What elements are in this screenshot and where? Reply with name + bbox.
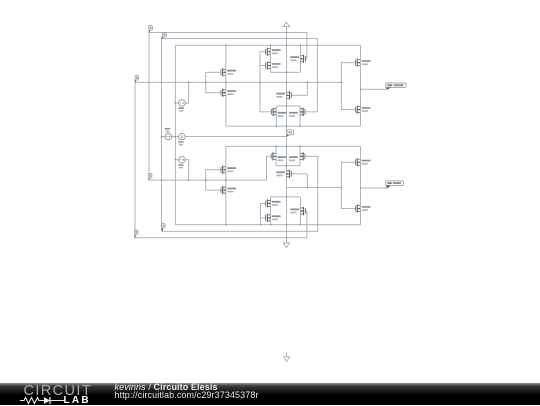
wire rail bottom2 xyxy=(162,156,318,231)
junction xyxy=(300,224,301,225)
voltage source V3 xyxy=(179,157,186,164)
label transistor M15 value xyxy=(227,188,236,193)
label current source I1 value xyxy=(178,141,184,145)
junction xyxy=(286,72,287,73)
node flag input bottom xyxy=(148,174,152,181)
label voltage source V2 value xyxy=(165,128,171,132)
wire side pair DS left top xyxy=(275,106,277,126)
junction xyxy=(360,187,361,188)
transistor M20 xyxy=(356,205,361,213)
junction xyxy=(205,82,206,83)
wire gate bus bottom pair xyxy=(206,170,221,190)
junction xyxy=(286,45,287,46)
transistor M7 xyxy=(271,108,276,116)
junction xyxy=(286,105,287,106)
wire net VDD top xyxy=(149,33,307,59)
label transistor M11 value xyxy=(277,156,286,161)
output flag top xyxy=(386,83,407,90)
ground symbol GND1 xyxy=(283,238,289,248)
node tag mid xyxy=(287,130,294,137)
wire M13 gate xyxy=(291,174,307,188)
wire box left edge xyxy=(174,45,176,225)
wire rail VDD box top xyxy=(175,44,360,46)
junction xyxy=(286,196,287,197)
transistor M15 xyxy=(221,186,226,194)
wire out net bottom xyxy=(360,187,387,189)
label transistor M7 value xyxy=(278,112,287,117)
junction xyxy=(188,82,189,83)
transistor M18 xyxy=(300,207,305,215)
wire out gate bus top xyxy=(341,63,355,110)
label transistor M6 value xyxy=(276,93,285,98)
junction xyxy=(286,165,287,166)
transistor M2 xyxy=(266,62,271,70)
power VDD arrow xyxy=(283,22,290,32)
wire gate bus top pair xyxy=(206,72,221,92)
voltage source V2 xyxy=(165,133,172,140)
wire VSS rail top block xyxy=(226,125,361,127)
transistor M13 xyxy=(286,170,291,178)
wire I1 to node xyxy=(185,136,286,138)
junction xyxy=(341,187,342,188)
junction xyxy=(286,125,287,126)
junction xyxy=(307,82,308,83)
current source I1 xyxy=(179,133,186,140)
label transistor M12 value xyxy=(289,156,298,161)
wire bias stub M2 xyxy=(260,65,266,67)
junction xyxy=(307,187,308,188)
wire mirror box bottom xyxy=(276,165,300,167)
wire out gate bus bottom xyxy=(341,162,355,208)
CircuitLab logo xyxy=(24,383,93,399)
voltage source V1 xyxy=(179,100,186,107)
wire input chain bottom xyxy=(225,146,227,225)
node flag bias2 xyxy=(162,33,167,39)
wire net bias2 top xyxy=(162,39,318,112)
label transistor M14 value xyxy=(227,167,236,172)
junction xyxy=(286,237,287,238)
junction xyxy=(175,136,176,137)
wire side pair DS left bottom xyxy=(275,146,277,166)
junction xyxy=(260,224,261,225)
junction xyxy=(205,179,206,180)
wire input chain top xyxy=(225,45,227,126)
wire VDD rail bottom block xyxy=(226,145,361,147)
junction xyxy=(360,89,361,90)
wire mid rail bottom xyxy=(286,187,341,189)
junction xyxy=(225,45,226,46)
label transistor M18 value xyxy=(290,209,299,214)
wire out net top xyxy=(360,88,387,90)
junction xyxy=(188,179,189,180)
junction xyxy=(300,45,301,46)
transistor M19 xyxy=(356,158,361,166)
label transistor M10 value xyxy=(362,107,371,112)
transistor M5 xyxy=(221,89,226,97)
label transistor M20 value xyxy=(362,206,371,211)
transistor M6 xyxy=(286,91,291,99)
wire V1 to input xyxy=(185,82,188,103)
wire side pair DS right bottom xyxy=(299,146,301,166)
wire left vertical A xyxy=(134,82,136,238)
output flag bottom xyxy=(386,181,404,189)
node flag GND xyxy=(134,230,138,238)
junction xyxy=(286,32,287,33)
label transistor M4 value xyxy=(227,70,236,75)
node flag VDD xyxy=(149,26,153,33)
transistor M12 xyxy=(300,152,305,160)
wire side pair DS right top xyxy=(299,106,301,126)
ground symbol GND2 isolated xyxy=(284,352,290,361)
transistor M8 xyxy=(300,108,305,116)
junction xyxy=(225,179,226,180)
junction xyxy=(286,82,287,83)
wire input line top xyxy=(135,81,341,83)
junction xyxy=(286,146,287,147)
wire center chain top xyxy=(285,33,287,137)
label transistor M5 value xyxy=(227,90,236,95)
transistor M10 xyxy=(356,106,361,114)
junction xyxy=(161,179,162,180)
footer text xyxy=(115,383,259,401)
wire rail bottom3 GND xyxy=(135,211,307,238)
wire M3 DS xyxy=(299,45,301,72)
wire V2-I1 link xyxy=(172,136,179,138)
junction xyxy=(341,82,342,83)
label transistor M2 value xyxy=(272,63,281,68)
label voltage source V1 value xyxy=(179,107,185,111)
junction xyxy=(225,82,226,83)
wire out vertical bottom xyxy=(359,146,361,225)
junction xyxy=(276,125,277,126)
wire mirror box top xyxy=(276,105,300,107)
node flag input top xyxy=(135,76,139,83)
wire V3 left lead xyxy=(175,159,178,161)
wire V1 left lead xyxy=(175,102,178,104)
junction xyxy=(161,136,162,137)
label transistor M17 value xyxy=(272,215,281,220)
wire M6 gate xyxy=(291,82,307,95)
label transistor M13 value xyxy=(276,171,285,176)
junction xyxy=(259,82,260,83)
wire bias vertical bottom xyxy=(261,203,266,224)
footer bar xyxy=(0,383,540,405)
wire left vertical C xyxy=(161,39,163,232)
label transistor M9 value xyxy=(362,60,371,65)
wire stack DS bottom xyxy=(270,197,272,225)
wire rail bottom1 xyxy=(175,224,360,226)
junction xyxy=(299,125,300,126)
wire box bottom top block xyxy=(271,71,301,73)
wire center chain bottom xyxy=(285,136,287,237)
wire left vertical B xyxy=(148,33,150,181)
transistor M3 xyxy=(300,55,305,63)
wire box top bottom block xyxy=(271,196,301,198)
transistor M14 xyxy=(221,166,226,174)
label transistor M1 value xyxy=(272,49,281,54)
label transistor M16 value xyxy=(272,201,281,206)
junction xyxy=(175,102,176,103)
label voltage source V3 value xyxy=(178,164,184,168)
transistor M1 xyxy=(266,48,271,56)
junction xyxy=(225,224,226,225)
transistor M9 xyxy=(356,59,361,67)
wire V2 left lead xyxy=(162,136,166,138)
wire input line bottom xyxy=(149,156,271,180)
wire stack DS top xyxy=(270,45,272,72)
wire V3 to input xyxy=(185,160,188,180)
transistor M16 xyxy=(266,199,271,207)
junction xyxy=(270,224,271,225)
wire bias vertical top xyxy=(260,52,271,112)
node flag rail2 xyxy=(162,224,166,232)
wire bias stub M17 xyxy=(261,217,266,219)
junction xyxy=(175,159,176,160)
junction xyxy=(299,146,300,147)
junction xyxy=(270,45,271,46)
junction xyxy=(275,146,276,147)
transistor M4 xyxy=(221,68,226,76)
transistor M17 xyxy=(266,214,271,222)
label transistor M3 value xyxy=(290,56,299,61)
wire out vertical top xyxy=(359,45,361,126)
label transistor M19 value xyxy=(362,160,371,165)
transistor M11 xyxy=(271,152,276,160)
label transistor M8 value xyxy=(289,112,298,117)
junction xyxy=(286,224,287,225)
wire M18 DS xyxy=(299,197,301,225)
